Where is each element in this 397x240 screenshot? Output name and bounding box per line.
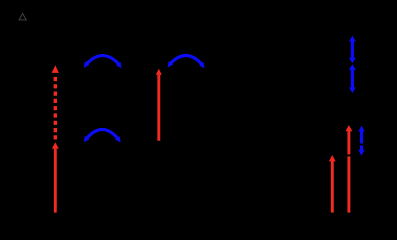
- blue vertical double arrow C (right, lower) with level-line gap: [358, 126, 364, 156]
- left dashed red arrow (up, detuned transition): [52, 65, 59, 139]
- middle red arrow (solid, up): [156, 69, 162, 141]
- blue vertical double arrow B (upper right, bottom segment): [349, 64, 356, 93]
- blue arc 3 (upper-middle double-headed curved arrow): [168, 55, 205, 68]
- blue arc 1 (upper-left double-headed curved arrow): [84, 56, 122, 69]
- blue arc 2 (lower-left double-headed curved arrow): [84, 129, 121, 142]
- tall red arrow (right, up) with level-line gap: [346, 125, 353, 213]
- left pump arrow (solid red, up): [52, 142, 59, 212]
- short red arrow (right, up): [329, 155, 336, 213]
- label delta (detuning Δ): [19, 14, 26, 20]
- blue vertical double arrow A (upper right, top segment): [349, 36, 356, 64]
